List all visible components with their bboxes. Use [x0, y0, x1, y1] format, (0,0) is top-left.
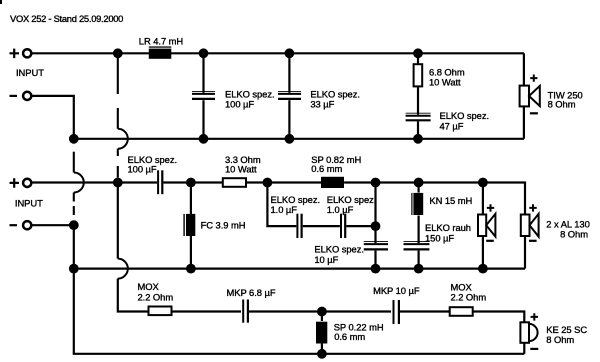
inductor FC 3.9 mH branch [183, 187, 195, 269]
dashed link wire with hop (x=73.8) [74, 144, 84, 221]
wire mid plus rail [32, 181, 158, 183]
svg-text:2.2 Ohm: 2.2 Ohm [451, 292, 487, 303]
inductor SP 0.22 mH branch [316, 315, 327, 354]
capacitor ELKO spez. 47uF [406, 113, 431, 139]
svg-text:10 Watt: 10 Watt [225, 164, 257, 175]
svg-text:MKP 6.8 µF: MKP 6.8 µF [227, 287, 276, 298]
svg-text:1.0 µF: 1.0 µF [271, 204, 298, 215]
resistor MOX 2.2 Ohm (left) [149, 307, 172, 316]
junction top rail B [199, 48, 209, 58]
junction tweeter node [317, 307, 327, 317]
minus mark AL2 [529, 240, 537, 242]
capacitor ELKO spez. 33uF (woofer shunt) [278, 58, 301, 139]
tweeter KE 25 SC [520, 322, 537, 354]
junction top rail A [113, 48, 123, 58]
wire resistor to inductor [246, 181, 321, 183]
wire tweeter bottom rail [74, 269, 525, 354]
svg-text:FC 3.9 mH: FC 3.9 mH [201, 219, 246, 230]
wire top rail [32, 52, 524, 54]
wire MKP6.8 to junction [249, 310, 322, 312]
plus mark AL2 [529, 204, 536, 211]
wire inductor to right corner [344, 183, 525, 215]
svg-text:8 Ohm: 8 Ohm [548, 99, 576, 110]
svg-text:10 Watt: 10 Watt [429, 76, 461, 87]
junction mid bottom 5 [478, 264, 488, 274]
junction mid bottom 4 [414, 264, 424, 274]
svg-text:100 µF: 100 µF [225, 99, 254, 110]
resistor MOX 2.2 Ohm (right) [450, 307, 473, 316]
junction 1.0uF node [371, 221, 381, 231]
capacitor ELKO spez. 100uF (series) [158, 170, 162, 194]
wire MOX to tweeter [473, 312, 525, 323]
resistor 3.3 Ohm 10 Watt [223, 178, 246, 187]
wire minus input to bottom rail [32, 96, 74, 139]
junction mid rail 4 [371, 178, 381, 188]
svg-text:0.6 mm: 0.6 mm [311, 163, 342, 174]
svg-text:ELKO spez.: ELKO spez. [314, 244, 364, 255]
svg-text:2.2 Ohm: 2.2 Ohm [138, 291, 174, 302]
junction mid rail 6 [478, 178, 488, 188]
junction mid bottom 3 [371, 264, 381, 274]
svg-text:0.6 mm: 0.6 mm [334, 331, 365, 342]
speaker AL 130 second [521, 214, 539, 269]
input 1 minus terminal [10, 92, 32, 100]
wire between 1.0uF caps [303, 225, 340, 227]
svg-text:10 µF: 10 µF [314, 254, 338, 265]
junction bottom rail A [69, 134, 79, 144]
junction mid bottom 1 [69, 264, 79, 274]
plus mark AL1 [487, 204, 494, 211]
capacitor ELKO spez. 1.0uF (first) [297, 214, 301, 238]
wire mid bottom rail [74, 268, 525, 270]
junction mid rail 1 [113, 178, 123, 188]
svg-text:150 µF: 150 µF [425, 232, 454, 243]
input 1 plus terminal [10, 49, 32, 59]
wire second cap to junction [346, 225, 375, 227]
input 2 minus terminal [10, 221, 32, 229]
input 2 plus terminal [10, 178, 32, 188]
inductor LR 4.7 mH [149, 46, 172, 58]
svg-text:47 µF: 47 µF [440, 120, 464, 131]
svg-text:KN 15 mH: KN 15 mH [429, 195, 472, 206]
speaker AL 130 first [478, 187, 495, 269]
junction mid rail 3 [263, 178, 273, 188]
svg-text:100 µF: 100 µF [128, 164, 157, 175]
junction mid rail 2 [186, 178, 196, 188]
svg-text:INPUT: INPUT [16, 67, 44, 78]
wire junction to MKP10 [322, 310, 391, 312]
dashed link wire with hop (x=117.8) [118, 58, 128, 178]
svg-text:8 Ohm: 8 Ohm [546, 334, 574, 345]
junction minus link [69, 220, 79, 230]
svg-text:33 µF: 33 µF [310, 99, 334, 110]
plus mark TIW [530, 75, 537, 82]
wire MKP10 to MOX [400, 310, 450, 312]
junction top rail C [285, 48, 295, 58]
junction bottom rail B [199, 134, 209, 144]
svg-text:1.0 µF: 1.0 µF [327, 204, 354, 215]
capacitor ELKO spez. 10uF branch [364, 187, 388, 269]
junction mid bottom 2 [186, 264, 196, 274]
svg-text:INPUT: INPUT [15, 197, 43, 208]
svg-text:LR 4.7 mH: LR 4.7 mH [139, 35, 183, 46]
capacitor ELKO rauh 150uF [404, 242, 430, 269]
svg-text:MKP 10 µF: MKP 10 µF [373, 285, 420, 296]
svg-text:VOX 252 - Stand 25.09.2000: VOX 252 - Stand 25.09.2000 [10, 13, 123, 24]
capacitor MKP 10 uF [394, 300, 399, 324]
minus mark TIW [530, 112, 538, 114]
capacitor MKP 6.8 uF [243, 300, 248, 323]
tweeter feed wire with hop (x=117.8) [118, 187, 149, 312]
capacitor ELKO spez. 100uF (woofer shunt) [192, 58, 215, 139]
svg-text:8 Ohm: 8 Ohm [560, 229, 588, 240]
inductor KN 15 mH branch [411, 187, 423, 243]
junction top rail D [413, 48, 423, 58]
wire cap to resistor [163, 181, 222, 183]
inductor SP 0.82 mH [321, 177, 344, 188]
wire 1.0uF branch from junction 3 [267, 187, 296, 226]
capacitor ELKO spez. 1.0uF (second) [341, 214, 345, 238]
wire bottom rail (woofer) [74, 138, 524, 140]
speaker TIW 250 [520, 53, 540, 139]
plus mark KE [531, 313, 538, 320]
corner mark [0, 0, 2, 4]
junction mid rail 5 [414, 178, 424, 188]
junction bottom rail C [285, 134, 295, 144]
resistor 6.8 Ohm 10 Watt [414, 58, 423, 115]
wire minus input 2 down [32, 225, 74, 268]
minus mark KE [530, 348, 538, 350]
junction bottom rail D [413, 134, 423, 144]
minus mark AL1 [486, 240, 494, 242]
junction tweeter bottom [317, 349, 327, 359]
wire MOX to MKP6.8 [172, 310, 242, 312]
